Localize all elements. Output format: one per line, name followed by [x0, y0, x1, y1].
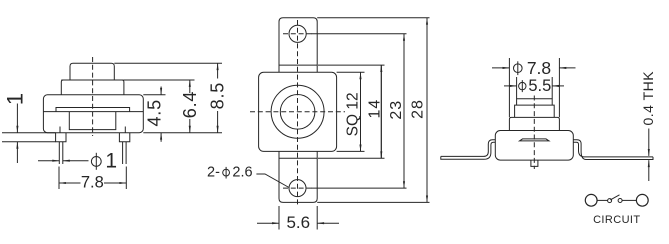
svg-text:2.6: 2.6 — [232, 164, 252, 180]
svg-text:CIRCUIT: CIRCUIT — [593, 214, 640, 226]
svg-text:8.5: 8.5 — [208, 82, 228, 109]
phi symbol of phi7.8 — [514, 64, 523, 73]
centerline side view — [533, 96, 535, 170]
extension line cap top (8.5) — [114, 62, 222, 64]
dimension 23 line — [403, 34, 405, 188]
side body — [495, 131, 573, 161]
side body slot — [520, 139, 550, 141]
circuit right terminal circle — [636, 194, 648, 206]
switch body square — [259, 72, 337, 151]
svg-text:6.4: 6.4 — [180, 91, 200, 118]
dimension 28 line — [426, 18, 428, 203]
ext top hole center (23) — [311, 33, 407, 35]
top mounting tab — [279, 18, 317, 73]
phi symbol of 2-phi2.6 — [223, 169, 230, 176]
extension line step2 top (6.4) — [124, 79, 195, 81]
dimension 5.6 extension lines — [278, 206, 280, 230]
bottom hole horizontal centerline — [283, 187, 312, 189]
ext body bottom (SQ12) — [337, 150, 365, 152]
dimension SQ12 line — [360, 72, 362, 151]
bottom tab bracket edge line — [279, 157, 317, 159]
svg-text:7.8: 7.8 — [527, 58, 551, 78]
side cap top step — [517, 99, 553, 105]
dimension 7.8 extension lines — [58, 167, 60, 190]
top tab hole — [289, 25, 306, 42]
body mid horizontal line — [43, 111, 143, 113]
switch body outline — [43, 95, 143, 133]
label 2-phi2.6 leader line — [256, 174, 289, 188]
svg-text:1: 1 — [105, 150, 117, 173]
left leg shoulder — [56, 133, 66, 142]
dimension 4.5 line outside arrows — [160, 87, 162, 95]
dimension phi5.5 extension lines — [516, 77, 518, 99]
extension line body bottom shared — [143, 132, 222, 134]
centerline front view — [92, 57, 94, 136]
svg-text:2-: 2- — [207, 164, 220, 180]
svg-text:1: 1 — [2, 93, 27, 105]
vertical centerline top view — [297, 20, 299, 206]
dimension 8.5 line — [217, 63, 219, 78]
ext tab top (28) — [317, 17, 429, 19]
ext top bracket edge (14) — [318, 64, 385, 66]
side cap base step — [509, 117, 559, 130]
bottom pin stub — [531, 160, 538, 166]
phi symbol of phi1 — [91, 157, 101, 167]
ext bottom bracket edge (14) — [318, 157, 385, 159]
extension line body top (4.5) — [143, 94, 165, 96]
circuit left wire — [597, 199, 608, 201]
side cap middle step — [515, 105, 555, 117]
button cap second step — [61, 80, 124, 95]
svg-text:5.6: 5.6 — [286, 213, 310, 232]
dimension 6.4 line — [189, 80, 191, 93]
ext bottom hole center (23) — [311, 187, 407, 189]
button outer circle — [271, 85, 324, 138]
dimension 5.6 arrows — [257, 222, 279, 224]
svg-text:23: 23 — [388, 100, 405, 120]
ext body top (SQ12) — [337, 71, 365, 73]
inner plunger box — [69, 112, 116, 130]
dimension phi7.8 arrows — [492, 67, 509, 69]
dimension 7.8 line — [59, 182, 81, 184]
mounting bracket right arm — [573, 140, 653, 160]
right pin — [123, 142, 127, 164]
svg-text:0.4 THK: 0.4 THK — [640, 71, 656, 126]
svg-text:14: 14 — [366, 99, 383, 119]
ext tab bottom (28) — [317, 201, 429, 203]
inner flange bar top — [56, 108, 130, 112]
dimension 14 line — [380, 65, 382, 158]
circuit left contact — [608, 199, 612, 203]
right pin hidden line in body — [124, 127, 126, 133]
mounting bracket left arm — [441, 140, 495, 160]
dimension 1 leader lines with arrows — [16, 104, 18, 133]
circuit right contact — [618, 199, 622, 203]
top hole horizontal centerline — [283, 33, 312, 35]
dimension phi1 arrows — [38, 160, 59, 162]
svg-text:28: 28 — [409, 99, 426, 119]
cap/step2 boundary line — [61, 79, 124, 81]
dimension 0.4 THK arrows — [648, 129, 650, 156]
dimension 1 (shoulder height) extension lines — [2, 132, 56, 134]
dimension phi5.5 arrows — [504, 85, 517, 87]
circuit switch lever — [610, 195, 619, 200]
dimension phi7.8 extension lines — [508, 58, 510, 117]
left pin — [59, 142, 63, 164]
button inner circle — [280, 95, 315, 130]
phi symbol of phi5.5 — [519, 82, 526, 89]
horizontal centerline top view — [250, 111, 345, 113]
top tab bracket edge line — [279, 64, 317, 66]
left pin hidden line in body — [59, 127, 61, 133]
svg-text:4.5: 4.5 — [144, 99, 164, 126]
circuit left terminal circle — [585, 194, 597, 206]
bottom tab hole — [289, 180, 306, 197]
circuit right wire — [622, 199, 636, 201]
button cap top step — [70, 63, 114, 80]
right leg shoulder — [119, 133, 129, 142]
svg-text:5.5: 5.5 — [528, 77, 551, 95]
bottom mounting tab — [279, 151, 317, 202]
svg-text:7.8: 7.8 — [81, 174, 104, 192]
svg-text:SQ 12: SQ 12 — [344, 92, 361, 136]
